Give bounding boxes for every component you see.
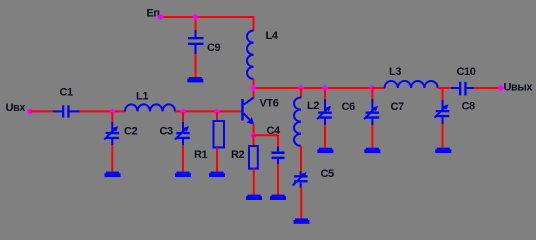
wire emitter down to node [253,124,255,137]
wire L2 bottom to C5 [300,146,302,172]
resistor R2 [249,146,258,195]
svg-text:L4: L4 [266,30,279,42]
svg-text:C9: C9 [207,42,221,54]
capacitor C5 (variable) [293,171,308,219]
node Uвых port dot [498,85,504,91]
capacitor C3 (variable) [175,112,190,172]
capacitor C2 (variable) [104,112,119,172]
svg-text:C1: C1 [60,87,74,99]
ground below C8 [435,148,451,153]
svg-text:Еп: Еп [147,8,160,20]
svg-text:C3: C3 [160,126,174,138]
svg-text:C2: C2 [124,126,138,138]
wire collector up to node [253,88,255,98]
svg-text:VT6: VT6 [260,98,279,110]
ground below C3 [175,172,191,177]
ground below C5 [294,218,310,223]
node Еп port dot [158,14,164,20]
wire top rail from Еп to L4 corner [161,17,254,31]
wire collector rail [254,87,386,89]
node dot C2 tap [110,109,115,114]
svg-text:R2: R2 [231,149,245,161]
ground below R1 [209,172,225,177]
node dot collector [251,85,256,90]
capacitor C8 (variable) [435,88,450,148]
wire emitter to R2 [253,135,255,146]
transistor VT6 [241,97,254,124]
svg-text:Uвх: Uвх [6,102,27,114]
node Uвх port dot [27,109,33,115]
wire C1 to L1 [80,110,126,112]
wire input to C1 [30,110,54,112]
svg-text:R1: R1 [194,149,208,161]
capacitor C7 (variable) [364,89,379,148]
svg-text:C5: C5 [321,168,335,180]
wire C4 to ground [277,164,279,195]
wire L3 to C10 [438,87,452,89]
capacitor C1 [53,105,80,117]
ground below C4 [270,195,286,200]
svg-text:C10: C10 [457,66,476,78]
svg-text:C4: C4 [267,125,282,137]
ground below C9 [187,77,203,82]
inductor L2 [294,98,301,146]
ground below C7 [364,148,380,153]
node junction dot at C9 tap [193,14,198,19]
node dot C7/L3 tap [370,85,375,90]
ground below R2 [246,195,262,200]
inductor L1 [125,104,175,111]
wire L2 top lead [300,88,302,98]
capacitor C6 (variable) [317,89,332,148]
wire C9 to ground [195,54,197,77]
node dot L2 tap [298,85,303,90]
wire Еп junction down to C9 [195,17,197,31]
ground below C6 [317,148,333,153]
wire C10 to output [474,87,501,89]
wire emitter to C4 [254,135,279,147]
capacitor C9 [188,30,204,55]
ground below C2 [105,172,121,177]
node dot C6 tap [322,85,327,90]
svg-text:L2: L2 [307,100,319,112]
node dot C3 tap [180,109,185,114]
wire L4 bottom to collector node [253,79,255,88]
node dot R1 tap [214,109,219,114]
capacitor C4 [272,147,285,165]
wire L1 to transistor base [175,110,242,112]
svg-text:C7: C7 [391,101,405,113]
svg-text:C6: C6 [342,101,356,113]
svg-text:L3: L3 [389,66,401,78]
inductor L3 [385,81,438,88]
svg-text:Uвых: Uвых [504,82,534,94]
node dot emitter [251,133,256,138]
capacitor C10 [451,82,475,96]
wire rail to L3 [372,87,385,89]
svg-text:C8: C8 [462,101,476,113]
inductor L4 [247,31,254,79]
resistor R1 [214,112,225,172]
svg-text:L1: L1 [136,91,148,103]
